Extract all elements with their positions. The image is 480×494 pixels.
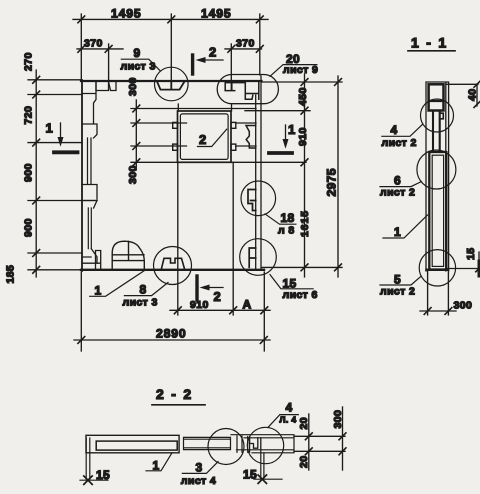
section mark 2 top: bar [191, 55, 194, 74]
svg-text:лист 6: лист 6 [283, 289, 318, 301]
bottom dim extension verticals [178, 162, 264, 351]
svg-text:1: 1 [46, 121, 53, 136]
svg-text:300: 300 [127, 77, 139, 96]
construction line upper tabs [131, 122, 256, 124]
svg-text:лист 2: лист 2 [382, 137, 417, 149]
svg-text:300: 300 [454, 300, 473, 312]
section 1-1 top flange box bold [429, 84, 444, 110]
svg-text:270: 270 [23, 52, 35, 71]
svg-text:2890: 2890 [156, 327, 187, 341]
z-step joint [250, 438, 261, 450]
svg-text:4: 4 [286, 401, 293, 415]
svg-text:720: 720 [23, 106, 35, 125]
svg-text:1 - 1: 1 - 1 [411, 35, 448, 51]
plan: left wall lower channel [88, 208, 91, 249]
plan: top-left corner hanging plate [96, 82, 109, 91]
svg-text:910: 910 [190, 299, 209, 311]
svg-text:4: 4 [391, 123, 398, 137]
svg-text:9: 9 [134, 46, 141, 60]
svg-text:лист 3: лист 3 [121, 61, 156, 73]
svg-text:300: 300 [332, 410, 344, 429]
dim 370 left [77, 48, 123, 50]
svg-text:лист 2: лист 2 [380, 187, 415, 199]
right dim line 300 [342, 407, 344, 470]
detail circle 15 on right wall [240, 239, 277, 276]
svg-text:A: A [243, 298, 252, 312]
bucket clip inside circle 9 [157, 82, 185, 90]
right leg [261, 450, 264, 479]
central square item 2 [178, 111, 232, 162]
svg-text:900: 900 [23, 218, 35, 237]
svg-text:2: 2 [209, 45, 216, 60]
right extension lines [245, 82, 342, 267]
right dim line 20/20 [308, 414, 310, 470]
connector clip left inside oval [225, 83, 245, 91]
svg-text:8: 8 [140, 283, 147, 297]
dim 300 below section 1-1 [428, 271, 449, 315]
svg-text:лист 3: лист 3 [123, 297, 158, 309]
bucket clip inside circle 8 [162, 258, 185, 268]
svg-text:3: 3 [196, 461, 203, 475]
section 1-1 liner outer bold [429, 152, 446, 270]
square tab left lower [173, 144, 178, 150]
svg-text:1495: 1495 [111, 7, 142, 21]
svg-text:лист 2: лист 2 [380, 285, 415, 297]
plan: post at bottom-left inner corner [96, 251, 101, 269]
square tab right lower [231, 144, 236, 150]
svg-text:370: 370 [84, 38, 103, 50]
section mark 1 left: bar [54, 150, 78, 154]
svg-text:900: 900 [23, 163, 35, 182]
svg-text:15: 15 [465, 248, 477, 260]
section 2-2 left channel item 1 [86, 435, 179, 453]
svg-text:450: 450 [297, 87, 309, 106]
plan: bottom edge wire [81, 269, 264, 271]
plan: bottom-left inner edge wire [82, 262, 100, 264]
clip inside circle 15 [249, 248, 256, 267]
aux dim line for 300 pair [135, 100, 137, 170]
dim 40 top right [446, 84, 478, 106]
svg-text:2975: 2975 [325, 168, 339, 196]
plan: left wall bottom notch [82, 249, 97, 263]
detail circle 5 [419, 250, 455, 286]
svg-text:20: 20 [298, 417, 310, 429]
svg-text:15: 15 [243, 468, 257, 482]
square tab right upper [231, 122, 236, 128]
mound cross lines [112, 241, 144, 260]
right plate assembly [231, 435, 294, 453]
plan: top-left corner slot [109, 82, 117, 91]
dim 370 right [225, 48, 262, 50]
svg-text:185: 185 [5, 265, 17, 284]
top dim line [73, 18, 268, 20]
section mark 2 bottom: arrow [203, 287, 223, 289]
detail circle right [247, 427, 283, 463]
square tab left upper [173, 122, 178, 128]
svg-text:Л. 4: Л. 4 [280, 415, 297, 425]
svg-text:2: 2 [199, 132, 206, 147]
plan: left wall inner profile [82, 82, 97, 139]
left extension lines [28, 80, 97, 270]
detail circle 4 [421, 99, 454, 132]
svg-text:2 - 2: 2 - 2 [156, 386, 193, 402]
construction line square bottom, crosses to right dims [131, 161, 306, 163]
section 1-1 outer profile [426, 82, 449, 271]
construction line at square top level [131, 108, 256, 110]
connector clip right inside oval [245, 82, 258, 100]
svg-text:1: 1 [394, 225, 401, 239]
svg-text:лист 9: лист 9 [283, 64, 318, 76]
left dim line column [35, 70, 37, 277]
svg-text:1615: 1615 [299, 210, 311, 237]
section 1-1 liner inner [432, 155, 443, 266]
oval detail (stadium) top right [217, 75, 278, 104]
construction line lower tabs [131, 145, 256, 147]
dim 2975 line [337, 76, 339, 277]
section mark 1 left: arrow [60, 123, 62, 143]
svg-text:1: 1 [288, 122, 295, 137]
svg-text:15: 15 [96, 468, 110, 482]
bottom dim 2890 line [74, 339, 270, 341]
plan: left wall mid notch [82, 185, 97, 209]
joint vertical plates [237, 436, 250, 452]
detail circle 9 on top edge [155, 67, 189, 101]
clip on right wall below oval [246, 126, 256, 149]
plan: left wall channel [88, 138, 92, 184]
svg-text:л 8: л 8 [278, 225, 295, 237]
section mark 1 right: bar [269, 151, 292, 155]
section mark 1 right: arrow [285, 125, 287, 145]
svg-text:300: 300 [127, 165, 139, 184]
detail circle joint [208, 429, 244, 465]
svg-text:лист 4: лист 4 [181, 475, 216, 487]
middle plate item 3 [184, 437, 231, 449]
detail circle 8 on bottom edge [154, 247, 192, 285]
bottom dim 910+A line [170, 309, 270, 311]
square corner extensions above [178, 104, 231, 111]
right dim column line [304, 74, 306, 277]
svg-text:40: 40 [467, 89, 479, 101]
clip inside circle 18 [248, 190, 256, 211]
svg-text:6: 6 [394, 174, 401, 188]
section mark 2 bottom: bar [195, 276, 198, 300]
svg-text:20: 20 [298, 456, 310, 468]
svg-text:910: 910 [297, 127, 309, 146]
section mark 2 top: arrow [199, 59, 223, 61]
svg-text:1: 1 [95, 284, 102, 298]
svg-text:18: 18 [281, 211, 295, 225]
detail circle 6 [417, 150, 456, 189]
plan: left wall outer line [81, 80, 83, 271]
left leg [86, 438, 90, 479]
dim 15 bottom right [447, 252, 480, 276]
plan: outer top edge wire [81, 80, 262, 82]
svg-text:370: 370 [236, 38, 255, 50]
plan: right wall double line [256, 76, 261, 269]
top dim extension lines [81, 14, 259, 81]
section 1-1 hanger bracket bold [433, 111, 440, 153]
svg-text:2: 2 [214, 289, 221, 304]
section 1-1 bottom edge bold [427, 268, 449, 271]
mound detail on bottom edge [112, 241, 144, 268]
detail circle 18 on right wall [241, 181, 276, 216]
svg-text:1495: 1495 [201, 7, 232, 21]
